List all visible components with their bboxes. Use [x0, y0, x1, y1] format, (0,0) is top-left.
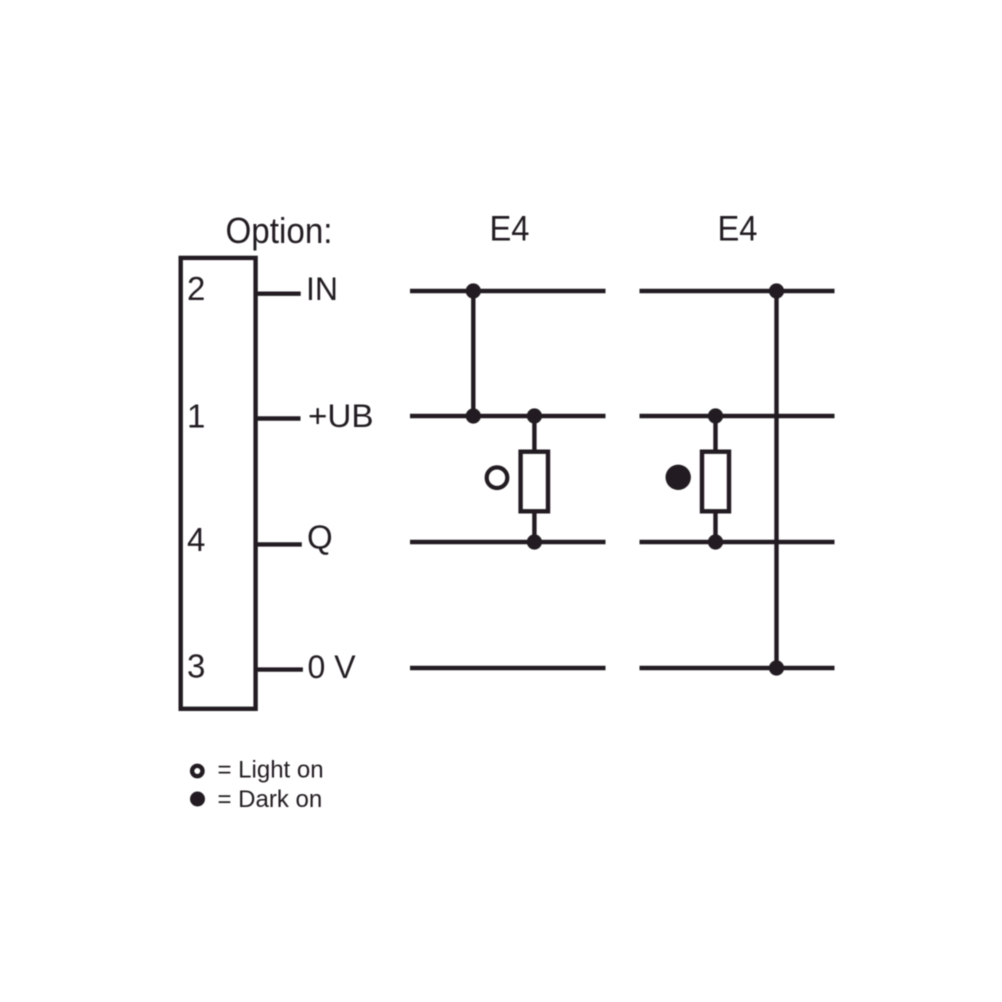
junction dot IN/link (circuit 1) [466, 283, 481, 298]
connector box [181, 258, 256, 709]
junction dot resistor/Q (circuit 1) [527, 534, 542, 549]
svg-text:3: 3 [187, 647, 205, 684]
wire +UB bus (circuit 1) [410, 414, 606, 418]
svg-text:1: 1 [187, 397, 205, 434]
wire +UB bus (circuit 2) [640, 414, 835, 418]
svg-text:2: 2 [187, 270, 205, 307]
svg-text:0 V: 0 V [308, 649, 357, 685]
wire resistor bottom lead (circuit 2) [713, 512, 717, 542]
wire link IN to 0V (circuit 2) [774, 291, 778, 668]
junction dot +UB/link (circuit 1) [466, 408, 481, 423]
wire Q bus (circuit 2) [640, 540, 835, 544]
svg-text:= Dark on: = Dark on [218, 786, 323, 813]
resistor load (circuit 2) [702, 452, 729, 512]
wire 0V bus (circuit 2) [640, 666, 835, 670]
legend filled circle symbol [190, 792, 205, 807]
indicator filled circle = dark on (circuit 2) [666, 465, 691, 490]
wire resistor bottom lead (circuit 1) [532, 512, 536, 542]
wire resistor top lead (circuit 2) [713, 416, 717, 451]
junction dot resistor/+UB (circuit 1) [527, 408, 542, 423]
pin 2 stub wire [256, 292, 301, 296]
junction dot 0V/link (circuit 2) [769, 660, 784, 675]
wire 0V bus (circuit 1) [410, 666, 606, 670]
pin 1 stub wire [256, 416, 301, 420]
wire IN bus (circuit 1) [410, 289, 606, 293]
svg-text:E4: E4 [718, 210, 758, 249]
pin 4 stub wire [256, 542, 302, 546]
svg-text:4: 4 [187, 521, 205, 558]
svg-text:+UB: +UB [308, 398, 374, 434]
wire Q bus (circuit 1) [410, 540, 606, 544]
junction dot resistor/Q (circuit 2) [708, 534, 723, 549]
svg-text:Option:: Option: [226, 210, 333, 251]
pin 3 stub wire [256, 667, 303, 671]
wire link IN to +UB (circuit 1) [471, 291, 475, 416]
svg-text:Q: Q [307, 519, 333, 556]
junction dot IN/link (circuit 2) [769, 283, 784, 298]
indicator open circle = light on (circuit 1) [487, 467, 508, 488]
wire IN bus (circuit 2) [640, 289, 835, 293]
svg-text:= Light on: = Light on [218, 757, 324, 784]
svg-text:IN: IN [306, 271, 338, 307]
wire resistor top lead (circuit 1) [532, 416, 536, 451]
svg-text:E4: E4 [490, 210, 530, 249]
junction dot resistor/+UB (circuit 2) [708, 408, 723, 423]
legend open circle symbol [192, 766, 202, 776]
resistor load (circuit 1) [521, 452, 548, 512]
